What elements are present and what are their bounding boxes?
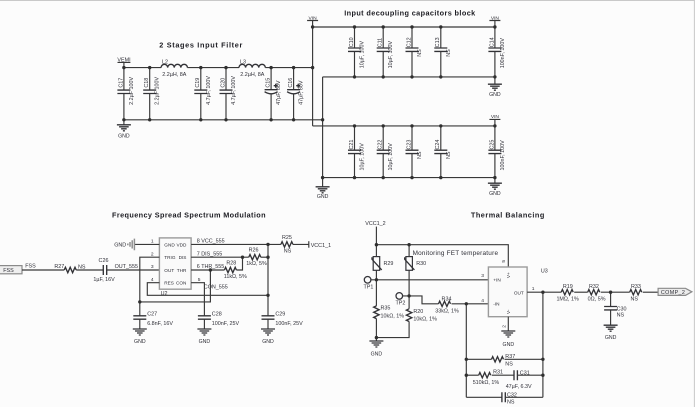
svg-text:GND: GND (164, 242, 175, 247)
svg-text:C10: C10 (349, 37, 355, 47)
wire filter bottom ground rail (124, 119, 323, 121)
svg-text:NS: NS (446, 151, 452, 159)
svg-text:GND: GND (118, 134, 130, 140)
op-amp U2 555 timer box (159, 238, 191, 297)
wire R19 to R32 (574, 291, 588, 293)
svg-text:COMP_2: COMP_2 (661, 290, 685, 296)
svg-text:4.7µF, 100V: 4.7µF, 100V (206, 76, 212, 105)
wire U2 pin6 THR to R28 (191, 269, 224, 271)
svg-text:1MΩ, 1%: 1MΩ, 1% (556, 297, 579, 303)
port FSS (0, 266, 22, 275)
svg-text:4.7µF, 100V: 4.7µF, 100V (231, 76, 237, 105)
svg-text:GND: GND (605, 335, 617, 341)
svg-text:2.2µH, 8A: 2.2µH, 8A (162, 72, 186, 78)
svg-text:11kΩ, 5%: 11kΩ, 5% (224, 274, 247, 280)
svg-text:1µF, 16V: 1µF, 16V (93, 277, 115, 283)
svg-text:R32: R32 (589, 284, 599, 290)
wire R37 row right (505, 358, 543, 360)
capacitor C11 (377, 27, 395, 77)
wire decoupling group2 bottom rail (323, 177, 495, 179)
inductor L2 (161, 59, 187, 78)
svg-text:2.2µF 100V: 2.2µF 100V (129, 77, 135, 105)
svg-text:R20: R20 (413, 309, 423, 315)
svg-text:CON_555: CON_555 (204, 285, 228, 291)
svg-text:47µF, 6.3V: 47µF, 6.3V (506, 384, 532, 390)
svg-text:C22: C22 (378, 140, 384, 150)
svg-text:C13: C13 (435, 37, 441, 47)
svg-text:7 DIS_555: 7 DIS_555 (197, 251, 222, 257)
svg-text:C25: C25 (489, 140, 495, 150)
svg-text:C24: C24 (435, 140, 441, 150)
wire U2 pin1 to GND flag (135, 243, 159, 245)
wire op-amp OUT to R19 (527, 291, 561, 293)
capacitor C28 (198, 312, 240, 329)
svg-text:R28: R28 (226, 261, 236, 267)
svg-text:NS: NS (446, 49, 452, 57)
ground GND op-amp pin2 (501, 331, 515, 348)
svg-text:100nF, 25V: 100nF, 25V (275, 321, 303, 327)
svg-text:1: 1 (532, 286, 535, 292)
wire R34 to op-amp -IN (452, 303, 489, 305)
svg-text:TP2: TP2 (396, 300, 406, 306)
svg-text:L3: L3 (240, 59, 246, 65)
svg-text:C14: C14 (489, 37, 495, 47)
wire FSS port to R27 (22, 269, 64, 271)
ground GND filter (117, 120, 131, 140)
svg-text:OUT: OUT (514, 290, 524, 295)
svg-text:C21: C21 (349, 140, 355, 150)
ground GND below C30 (604, 325, 618, 341)
svg-text:NS: NS (417, 49, 423, 57)
wire R27 to C26 (76, 269, 103, 271)
ground GND below C25 (488, 178, 502, 197)
svg-text:DIS: DIS (179, 255, 187, 260)
power flag VCC1_2 (365, 221, 385, 245)
capacitor C32 (502, 392, 517, 405)
svg-text:NS: NS (417, 151, 423, 159)
capacitor C19 (194, 68, 212, 120)
capacitor C25 (488, 126, 506, 178)
svg-text:Monitoring FET temperature: Monitoring FET temperature (413, 250, 499, 257)
svg-text:4: 4 (481, 298, 484, 304)
svg-text:R19: R19 (563, 284, 573, 290)
capacitor C23 (406, 126, 424, 178)
capacitor C27 (133, 312, 173, 329)
svg-text:V+: V+ (506, 272, 511, 278)
resistor R31 (473, 370, 503, 387)
svg-text:GND: GND (371, 351, 383, 357)
svg-text:OUT: OUT (164, 268, 174, 273)
svg-text:5: 5 (198, 277, 201, 283)
resistor R34 (435, 297, 459, 315)
svg-text:GND: GND (262, 339, 274, 345)
svg-text:GND: GND (134, 339, 146, 345)
capacitor C16 polarized (287, 68, 305, 120)
wire U2 pin2 TRIG left and down to C27 (140, 257, 160, 316)
wire C31 to right vertical (517, 374, 543, 376)
wire R31 to C31 (492, 374, 514, 376)
svg-text:C23: C23 (406, 140, 412, 150)
svg-text:2 Stages Input Filter: 2 Stages Input Filter (159, 41, 242, 50)
svg-text:R27: R27 (54, 264, 64, 270)
svg-text:R30: R30 (416, 261, 426, 267)
svg-text:U3: U3 (541, 268, 548, 274)
svg-text:GND: GND (489, 92, 501, 98)
svg-text:Frequency Spread Spectrum Modu: Frequency Spread Spectrum Modulation (112, 211, 265, 220)
svg-text:C31: C31 (520, 371, 530, 377)
svg-text:2: 2 (501, 325, 507, 328)
svg-text:L2: L2 (162, 59, 168, 65)
wire feedback right vertical from OUT (542, 292, 544, 397)
capacitor C20 (220, 68, 238, 120)
test point TP1 (364, 277, 374, 291)
svg-text:R35: R35 (381, 306, 391, 312)
svg-text:C17: C17 (118, 78, 124, 88)
svg-text:NS: NS (284, 249, 292, 255)
svg-text:C19: C19 (195, 78, 201, 88)
svg-text:OUT_555: OUT_555 (115, 264, 138, 270)
svg-text:FSS: FSS (3, 268, 14, 274)
capacitor C14 (488, 27, 506, 77)
resistor R27 (54, 264, 86, 273)
svg-text:GND: GND (489, 191, 501, 197)
svg-text:TRIG: TRIG (164, 255, 176, 260)
wire R32 to R33 (601, 291, 630, 293)
sheet top border (0, 0, 695, 2)
ground GND group2 left (316, 178, 330, 201)
svg-text:2.2µH, 8A: 2.2µH, 8A (240, 72, 264, 78)
resistor R37 (492, 354, 516, 367)
svg-text:2.2µF 100V: 2.2µF 100V (155, 77, 161, 105)
wire VIN vertical (312.6) from top rail through filter rail to group2 (312, 27, 314, 126)
capacitor C18 (143, 68, 161, 120)
inductor L3 (239, 59, 265, 78)
capacitor C21 (348, 126, 366, 178)
ground GND below C29 (261, 329, 275, 345)
svg-text:U2: U2 (161, 291, 168, 297)
svg-text:C16: C16 (288, 78, 294, 88)
capacitor C22 (377, 126, 395, 178)
sheet right border (693, 0, 695, 407)
svg-text:C15: C15 (266, 78, 272, 88)
svg-text:100nF, 100V: 100nF, 100V (500, 140, 506, 171)
wire C32 row left (466, 396, 502, 398)
svg-text:47µF, 80V: 47µF, 80V (276, 80, 282, 105)
svg-text:8 VCC_555: 8 VCC_555 (197, 239, 225, 245)
svg-text:100nF, 25V: 100nF, 25V (212, 321, 240, 327)
resistor R26 (246, 248, 267, 268)
power flag VIN top-right (489, 15, 500, 27)
wire VCC_555 vertical down to C29 (267, 244, 269, 315)
capacitor C15 polarized (265, 68, 283, 120)
resistor R28 (224, 261, 247, 281)
svg-text:10µF, 100V: 10µF, 100V (388, 143, 394, 171)
power flag VIN top-left (307, 15, 318, 27)
resistor R33 (630, 284, 642, 302)
svg-text:10kΩ, 1%: 10kΩ, 1% (381, 313, 405, 319)
svg-text:3: 3 (481, 273, 484, 279)
svg-text:33kΩ, 1%: 33kΩ, 1% (435, 308, 459, 314)
capacitor C12 (406, 27, 424, 77)
wire feedback left vertical from -IN (465, 304, 467, 398)
svg-text:RES: RES (164, 281, 174, 286)
svg-text:GND: GND (199, 339, 211, 345)
svg-text:C28: C28 (212, 312, 222, 318)
resistor R32 (588, 284, 606, 302)
power flag VIN group2 right (489, 114, 500, 126)
wire VCC rail to op-amp pin5 (376, 245, 508, 267)
wire C32 row right (505, 396, 543, 398)
wire R28 up to DIS row (236, 257, 242, 270)
op-amp U3 box (488, 267, 547, 317)
svg-text:C29: C29 (275, 312, 285, 318)
svg-text:100nF, 100V: 100nF, 100V (500, 38, 506, 69)
svg-text:Input decoupling capacitors bl: Input decoupling capacitors block (344, 9, 476, 18)
resistor R19 (556, 284, 579, 302)
svg-text:1: 1 (151, 239, 154, 245)
svg-text:NS: NS (505, 362, 513, 368)
svg-text:10µF, 100V: 10µF, 100V (360, 143, 366, 171)
capacitor C29 (262, 312, 304, 329)
wire filter top rail L2 to L3 (187, 67, 239, 69)
svg-text:47µF, 80V: 47µF, 80V (299, 80, 305, 105)
svg-text:0Ω, 5%: 0Ω, 5% (588, 297, 606, 303)
wire U2 pin5 CON down to C28 (191, 283, 204, 316)
ground GND below C14 (488, 77, 502, 98)
svg-text:C18: C18 (144, 78, 150, 88)
capacitor C13 (434, 27, 452, 77)
resistor R20 (376, 309, 437, 338)
svg-text:10µF, 100V: 10µF, 100V (360, 41, 366, 69)
svg-text:NS: NS (630, 297, 638, 303)
wire R33 to COMP_2 port (643, 291, 658, 293)
wire TP2 jog to R34 (403, 296, 439, 304)
svg-text:GND: GND (114, 243, 126, 249)
resistor R35 (374, 280, 405, 338)
svg-text:R33: R33 (631, 284, 641, 290)
svg-text:3: 3 (151, 264, 154, 270)
svg-text:C12: C12 (406, 37, 412, 47)
capacitor C30 (604, 292, 626, 325)
ground GND below C28 (197, 329, 211, 345)
svg-text:GND: GND (503, 342, 515, 348)
wire U2 pin7 DIS to R26 (191, 256, 249, 258)
wire filter top rail L3 to VIN junction (265, 67, 312, 69)
wire U2 pin4 RES loop to VCC vertical (147, 283, 268, 296)
test point TP2 (396, 293, 406, 307)
svg-text:VCC1_1: VCC1_1 (311, 243, 331, 249)
svg-text:CON: CON (176, 281, 186, 286)
capacitor C26 (93, 258, 115, 283)
svg-text:VDD: VDD (176, 242, 187, 247)
thermistor R30 (405, 245, 426, 309)
svg-text:C26: C26 (99, 258, 109, 264)
wire op-amp pin2 to GND (507, 317, 509, 331)
svg-text:R26: R26 (249, 248, 259, 254)
wire decoupling group1 bottom rail (323, 76, 495, 78)
capacitor C31 (506, 370, 532, 390)
svg-text:510kΩ, 1%: 510kΩ, 1% (473, 380, 500, 386)
svg-text:C30: C30 (617, 306, 627, 312)
wire U2 pin8 VCC to R25 (191, 243, 281, 245)
svg-text:R29: R29 (384, 261, 394, 267)
svg-text:-IN: -IN (493, 301, 499, 306)
wire filter top rail VEMI to L2 (124, 67, 161, 69)
net label VEMI (117, 57, 130, 67)
wire ground vertical (322.6) (322, 77, 324, 178)
svg-text:1kΩ, 5%: 1kΩ, 5% (246, 261, 267, 267)
capacitor C10 (348, 27, 366, 77)
wire decoupling group2 top rail (313, 125, 495, 127)
svg-text:5: 5 (501, 260, 507, 263)
svg-text:TP1: TP1 (364, 285, 374, 291)
svg-text:VCC1_2: VCC1_2 (365, 221, 385, 227)
wire THR branch down and left to TRIG/C27 node (140, 270, 211, 302)
svg-text:+IN: +IN (493, 277, 500, 282)
svg-text:NS: NS (617, 313, 625, 319)
net flag VCC1_1 (309, 241, 331, 249)
svg-text:FSS: FSS (25, 264, 36, 270)
svg-text:C20: C20 (220, 78, 226, 88)
svg-text:THR: THR (177, 268, 187, 273)
ground GND below C27 (133, 329, 147, 345)
svg-text:4: 4 (151, 277, 154, 283)
svg-text:C11: C11 (378, 38, 384, 48)
resistor R25 (281, 235, 293, 255)
capacitor C24 (434, 126, 452, 178)
wire R26 to VCC vertical (261, 256, 268, 258)
svg-text:GND: GND (317, 194, 329, 200)
svg-text:Thermal Balancing: Thermal Balancing (471, 211, 544, 220)
svg-text:6.8nF, 16V: 6.8nF, 16V (147, 321, 173, 327)
ground flag sideways at U2 pin1 (114, 239, 134, 251)
thermistor R29 (372, 245, 393, 280)
port COMP_2 (658, 288, 692, 296)
svg-text:10kΩ, 1%: 10kΩ, 1% (413, 316, 437, 322)
svg-text:NS: NS (507, 399, 515, 405)
wire decoupling group1 top rail (313, 26, 495, 28)
svg-text:V-: V- (506, 309, 511, 314)
ground GND below R35 (369, 338, 383, 358)
svg-text:10µF, 100V: 10µF, 100V (388, 41, 394, 69)
svg-text:R34: R34 (442, 297, 452, 303)
svg-text:2: 2 (151, 251, 154, 257)
svg-text:C27: C27 (147, 312, 157, 318)
capacitor C17 (117, 68, 134, 120)
wire R31 row left (466, 374, 478, 376)
wire R37 row left (466, 358, 491, 360)
wire R25 to VCC1_1 flag (293, 243, 309, 245)
wire TP1 to op-amp +IN (371, 279, 489, 281)
wire C26 to U2 pin3 OUT (107, 269, 160, 271)
svg-text:R25: R25 (282, 235, 292, 241)
